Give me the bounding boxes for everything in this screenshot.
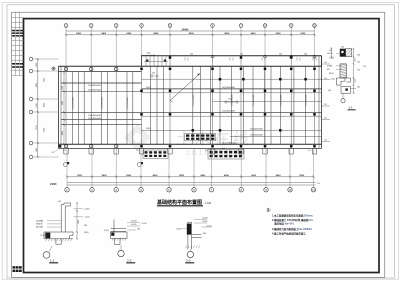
svg-text:5800: 5800 xyxy=(102,175,108,177)
isolated footing marks J-1 xyxy=(67,162,69,164)
svg-text:注:: 注: xyxy=(267,207,271,212)
beam line row1 right half xyxy=(142,78,322,80)
bottom axis bubble 10 xyxy=(288,188,292,192)
left axis bubble A xyxy=(29,155,33,159)
svg-text:4800: 4800 xyxy=(62,131,64,135)
svg-text:2600: 2600 xyxy=(276,33,282,35)
svg-text:240: 240 xyxy=(341,46,344,48)
beam row4 right xyxy=(142,129,322,131)
svg-text:1000: 1000 xyxy=(146,53,150,55)
detail left leaders xyxy=(336,54,343,79)
section detail 1-1 xyxy=(44,203,73,244)
left sign-off table strip xyxy=(12,12,24,75)
svg-text:L6(1): L6(1) xyxy=(146,128,151,130)
beam row mid right partial xyxy=(213,100,322,102)
bottom axis bubble 4 xyxy=(139,188,143,192)
detail column hatched square xyxy=(346,49,352,57)
footing cluster detail B xyxy=(208,150,244,160)
svg-text:240: 240 xyxy=(324,140,327,142)
svg-text:2850: 2850 xyxy=(224,33,230,35)
detail 1-1 right dim chain xyxy=(76,203,78,239)
footing cluster detail C inside plan xyxy=(185,133,216,141)
svg-text:-0.450: -0.450 xyxy=(202,221,207,223)
svg-text:2400: 2400 xyxy=(276,174,282,177)
svg-text:240: 240 xyxy=(329,50,332,52)
top axis bubble 5 xyxy=(168,24,172,28)
svg-text:2400: 2400 xyxy=(126,32,132,35)
svg-text:1250: 1250 xyxy=(355,79,357,83)
detail right dim chain xyxy=(353,49,355,93)
svg-text:240: 240 xyxy=(304,54,307,56)
svg-text:2400: 2400 xyxy=(101,32,107,35)
beam row2 upper right xyxy=(142,88,322,90)
svg-text:L1(3)300x500: L1(3)300x500 xyxy=(88,89,102,91)
svg-text:L4(1): L4(1) xyxy=(146,87,151,89)
detail lower rect xyxy=(341,87,351,94)
bottom axis bubble 3 xyxy=(114,188,118,192)
svg-text:L3(1)250x400: L3(1)250x400 xyxy=(232,94,234,106)
watermark logo diamond xyxy=(124,124,151,151)
svg-text:240: 240 xyxy=(190,54,193,56)
detail axis circle xyxy=(341,99,345,103)
svg-text:250: 250 xyxy=(357,87,360,89)
plan left outer wall xyxy=(58,66,60,148)
top axis bubble 1 xyxy=(64,24,68,28)
detail 2-2 axis circle xyxy=(118,250,124,256)
hollow circle columns bottom wall xyxy=(64,145,67,148)
beam row3 upper left xyxy=(61,119,142,121)
svg-text:240: 240 xyxy=(357,55,360,57)
section detail 3-3 xyxy=(188,222,202,249)
svg-text:1-1: 1-1 xyxy=(349,105,353,109)
svg-text:3600: 3600 xyxy=(251,175,257,177)
svg-text:240: 240 xyxy=(324,104,327,106)
detail left small dim chain xyxy=(331,47,333,59)
svg-text:L4(1)300x500: L4(1)300x500 xyxy=(222,87,236,89)
top overall dimension line 24400 xyxy=(66,30,315,32)
svg-text:240: 240 xyxy=(279,54,282,56)
bottom axis bubble 11 xyxy=(311,188,315,192)
beam row2 lower left xyxy=(61,91,142,93)
bottom-left margin stamp text xyxy=(13,266,16,268)
svg-text:L7(1)300x500: L7(1)300x500 xyxy=(250,135,264,137)
detail hatched wall xyxy=(340,64,347,78)
top axis bubble 2 xyxy=(89,24,93,28)
detail 2-2 ground hatch xyxy=(112,238,126,240)
svg-text:2.基础混凝土 C25,M5砂浆,基础垫C10: 2.基础混凝土 C25,M5砂浆,基础垫C10 xyxy=(272,218,313,222)
svg-text:500: 500 xyxy=(328,90,331,92)
svg-text:L3(1)250x400: L3(1)250x400 xyxy=(280,94,282,106)
interior vertical beam lines left half xyxy=(73,72,133,145)
interior dim tick cluster right-mid xyxy=(150,74,239,104)
left table dark text band 1 xyxy=(12,30,15,32)
svg-text:120: 120 xyxy=(357,61,360,63)
left table dark text band 2 xyxy=(12,63,15,65)
right edge dim ticks and labels xyxy=(322,64,330,141)
svg-text:-0.450: -0.450 xyxy=(131,224,136,226)
detail 1-1 axis circle xyxy=(43,252,50,259)
top axis bubble 7 xyxy=(239,24,243,28)
svg-text:2850: 2850 xyxy=(153,33,159,35)
svg-text:L6(1)300x500: L6(1)300x500 xyxy=(250,129,264,131)
top axis bubble 10 xyxy=(313,24,317,28)
left axis extension lines xyxy=(33,59,59,157)
detail 3-3 right dims xyxy=(194,220,212,228)
svg-text:1500: 1500 xyxy=(62,86,64,90)
svg-text:素砼垫层 fak=370.: 素砼垫层 fak=370. xyxy=(274,222,294,226)
svg-text:DL1(7)300x500: DL1(7)300x500 xyxy=(222,142,237,144)
svg-text:2-2: 2-2 xyxy=(127,259,132,263)
svg-text:JL2(9): JL2(9) xyxy=(176,228,182,230)
stair shaft cluster xyxy=(144,57,168,67)
svg-text:基础结构平面布置图: 基础结构平面布置图 xyxy=(156,199,202,206)
bottom axis bubble 7 xyxy=(209,188,213,192)
bottom axis bubble 5 xyxy=(167,188,171,192)
top axis bubble 4 xyxy=(140,24,144,28)
detail 1-1 ground hatch ticks xyxy=(46,239,72,241)
detail 3-3 ground hatch xyxy=(186,246,200,248)
detail 3-3 axis circle xyxy=(187,251,193,257)
svg-text:JL1(9): JL1(9) xyxy=(104,230,110,232)
bottom axis bubble 2 xyxy=(90,188,94,192)
svg-text:L3(1)250x400: L3(1)250x400 xyxy=(193,94,195,106)
svg-text:±0.000: ±0.000 xyxy=(327,53,332,55)
svg-text:240: 240 xyxy=(317,183,320,185)
svg-text:1.本工程基础采用砖条形基础 250mm.: 1.本工程基础采用砖条形基础 250mm. xyxy=(272,214,313,218)
left axis bubble C xyxy=(29,110,33,114)
svg-text:±0.000: ±0.000 xyxy=(131,221,137,223)
plan top protrusion wall xyxy=(142,55,322,57)
bottom axis bubble 1 xyxy=(65,188,69,192)
left axis bubble D xyxy=(29,97,33,101)
svg-text:24400: 24400 xyxy=(50,183,57,186)
hollow circle columns protrusion xyxy=(211,55,214,58)
svg-text:3-3: 3-3 xyxy=(186,259,191,263)
svg-text:MU10: MU10 xyxy=(329,73,334,75)
svg-text:240: 240 xyxy=(58,201,61,203)
black column squares xyxy=(140,68,143,71)
svg-text:2900: 2900 xyxy=(299,175,305,177)
svg-text:L3(1)250x400: L3(1)250x400 xyxy=(102,97,104,109)
plan bottom outer wall line xyxy=(59,147,322,149)
svg-text:-1.250: -1.250 xyxy=(206,225,211,227)
left axis bubble B xyxy=(29,141,33,145)
detail 1-1 leader lines xyxy=(47,209,83,227)
plan top inner wall line xyxy=(59,71,142,73)
beam row2 upper left xyxy=(61,82,142,84)
top axis bubble 9 xyxy=(289,24,293,28)
bottom overall dimension lines xyxy=(67,182,316,184)
wall corner column and J-1 label xyxy=(59,145,62,148)
svg-text:L3(1)250x400: L3(1)250x400 xyxy=(306,94,308,106)
svg-text:1500: 1500 xyxy=(78,220,80,224)
svg-text:M5: M5 xyxy=(327,69,330,71)
svg-text:L3(1)250x400: L3(1)250x400 xyxy=(127,97,129,109)
svg-text:240: 240 xyxy=(240,54,243,56)
svg-text:-1.250: -1.250 xyxy=(330,79,335,81)
svg-text:±0.000: ±0.000 xyxy=(202,218,208,220)
svg-text:-0.060: -0.060 xyxy=(329,58,334,60)
svg-text:300: 300 xyxy=(137,228,140,230)
left axis bubble E xyxy=(29,69,33,73)
svg-text:4250: 4250 xyxy=(189,32,195,35)
detail 2-2 right dims xyxy=(127,223,140,231)
svg-text:2850: 2850 xyxy=(179,175,185,177)
beam row3 lower right xyxy=(142,115,322,117)
bottom axis bubble 8 xyxy=(239,188,243,192)
small axis datum circle with cross xyxy=(52,67,55,70)
svg-text:3900: 3900 xyxy=(126,175,132,177)
svg-text:4.施工时请严格按规范要求施工.: 4.施工时请严格按规范要求施工. xyxy=(272,232,307,236)
svg-text:300: 300 xyxy=(203,233,206,235)
svg-text:-1.500: -1.500 xyxy=(84,217,89,219)
svg-text:L3(1)250x400: L3(1)250x400 xyxy=(253,94,255,106)
svg-text:2400: 2400 xyxy=(76,32,82,35)
footing stubs below wall xyxy=(64,148,317,154)
bottom axis extension lines xyxy=(67,148,314,187)
svg-text:-0.060: -0.060 xyxy=(84,209,89,211)
detail 1-1 left hatch block xyxy=(45,233,50,239)
beam row3 upper full xyxy=(61,111,322,113)
plan top outer wall line xyxy=(59,65,322,67)
ramp arrow tail tick xyxy=(170,101,173,102)
svg-text:L5(1)300x500: L5(1)300x500 xyxy=(222,110,236,112)
section detail 2-2 xyxy=(111,220,128,245)
svg-text:(300): (300) xyxy=(84,232,89,234)
svg-text:L1(3)300x500: L1(3)300x500 xyxy=(88,85,102,87)
svg-text:5000: 5000 xyxy=(62,101,64,105)
top axis bubble 6 xyxy=(211,24,215,28)
svg-text:L3(1)250x400: L3(1)250x400 xyxy=(73,97,75,109)
detail column black square xyxy=(340,49,346,57)
small dim ticks above protrusion xyxy=(185,58,316,61)
ramp slope arrow xyxy=(170,74,200,101)
svg-text:-1.700: -1.700 xyxy=(141,223,146,225)
heavy drawing frame xyxy=(24,19,380,273)
top segment dimension line xyxy=(66,34,315,36)
left vertical dimension line xyxy=(37,59,39,157)
beam row2 lower right xyxy=(142,92,322,94)
beam row5 right partial xyxy=(230,135,322,137)
svg-text:3300: 3300 xyxy=(77,175,83,177)
svg-text:240: 240 xyxy=(152,72,155,74)
svg-text:240: 240 xyxy=(324,62,327,64)
left axis bubble F xyxy=(29,57,33,61)
svg-text:1-1: 1-1 xyxy=(50,259,55,263)
bottom axis bubble 9 xyxy=(264,188,268,192)
svg-text:240: 240 xyxy=(324,118,327,120)
hollow circle columns top wall xyxy=(64,67,67,70)
svg-text:1:100: 1:100 xyxy=(205,202,212,205)
svg-text:L2(3)300x500: L2(3)300x500 xyxy=(88,115,102,117)
svg-text:750: 750 xyxy=(357,70,360,72)
svg-text:370: 370 xyxy=(363,66,366,68)
interior vertical beam lines right half xyxy=(151,66,306,144)
plan bottom inner wall line xyxy=(59,143,322,145)
svg-text:3.基础持力层为粉质粘土fak=200kPa: 3.基础持力层为粉质粘土fak=200kPa xyxy=(272,227,312,231)
bottom segment dimension line xyxy=(67,176,314,178)
svg-text:24400: 24400 xyxy=(182,28,189,31)
plan right outer wall xyxy=(318,56,320,149)
svg-text:L2(3)300x500: L2(3)300x500 xyxy=(88,118,102,120)
footing cluster detail A xyxy=(143,150,168,159)
interior vertical dim chain near left wall xyxy=(63,73,65,145)
bottom axis bubble 6 xyxy=(192,188,196,192)
beam row3 lower left xyxy=(61,124,142,126)
svg-text:2400: 2400 xyxy=(251,32,257,35)
svg-text:4000: 4000 xyxy=(153,174,159,177)
svg-text:2400: 2400 xyxy=(200,174,206,177)
top axis bubble 3 xyxy=(114,24,118,28)
svg-text:500: 500 xyxy=(84,225,87,227)
svg-text:240: 240 xyxy=(324,78,327,80)
axis vertical lines through plan xyxy=(66,56,315,149)
svg-text:4000: 4000 xyxy=(224,174,230,177)
top axis bubble 8 xyxy=(263,24,267,28)
svg-text:2300: 2300 xyxy=(300,33,306,35)
top axis extension lines xyxy=(66,27,315,66)
detail step shape xyxy=(337,78,351,85)
